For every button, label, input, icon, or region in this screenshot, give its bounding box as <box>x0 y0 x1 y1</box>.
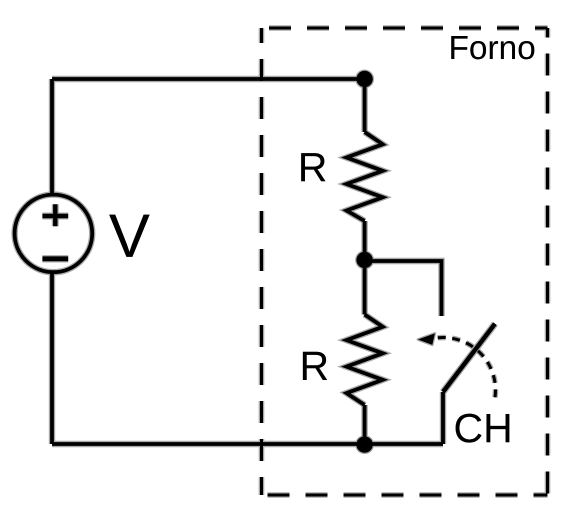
enclosure dashed box right edge <box>546 28 549 495</box>
enclosure dashed box left edge <box>260 28 263 495</box>
wire resistor R1 bottom to node B <box>363 221 367 260</box>
label R1 <box>301 153 325 181</box>
node B junction dot <box>356 252 372 268</box>
wire resistor R2 bottom to node C <box>363 405 367 444</box>
switch motion arrowhead <box>418 333 435 345</box>
label V <box>109 215 149 257</box>
wire node B to resistor R2 top <box>363 260 367 315</box>
wire bottom horizontal <box>52 442 443 446</box>
voltage source V circle <box>15 195 93 273</box>
resistor R1 zigzag <box>347 132 383 221</box>
wire node B to switch top contact <box>365 261 442 316</box>
switch motion dashed arc <box>436 337 496 397</box>
label R2 <box>303 352 327 380</box>
label CH <box>456 414 510 443</box>
label Forno <box>451 36 534 59</box>
wire left vertical upper (source top) <box>50 79 54 195</box>
switch CH blade <box>443 324 495 392</box>
node C junction dot <box>356 436 372 452</box>
resistor R2 zigzag <box>347 315 383 406</box>
wire switch bottom contact to node C <box>441 392 445 444</box>
wire node A to resistor R1 top <box>363 79 367 132</box>
node A junction dot <box>356 71 372 87</box>
wire left vertical lower (source bottom) <box>50 272 54 444</box>
wire top horizontal from source to node A <box>52 77 365 81</box>
enclosure dashed box bottom edge <box>262 494 548 497</box>
voltage source plus sign <box>42 204 68 226</box>
voltage source minus sign <box>42 256 68 261</box>
enclosure dashed box top edge <box>262 27 548 30</box>
